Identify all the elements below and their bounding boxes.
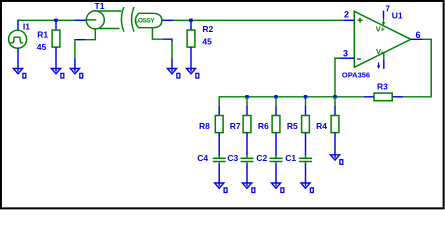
wire xyxy=(171,41,173,59)
wire xyxy=(173,19,343,21)
resistor R4 xyxy=(331,116,339,133)
svg-text:45: 45 xyxy=(37,42,47,52)
svg-text:U1: U1 xyxy=(392,11,403,21)
svg-text:R2: R2 xyxy=(202,24,213,34)
resistor R1 xyxy=(52,30,60,47)
resistor R7 xyxy=(243,116,251,133)
source I1 xyxy=(9,20,27,69)
resistor R3 xyxy=(374,93,392,101)
svg-text:3: 3 xyxy=(343,48,348,58)
svg-text:V+: V+ xyxy=(376,25,386,34)
pin 4 stub xyxy=(383,59,385,69)
wire xyxy=(305,106,307,116)
wire xyxy=(275,97,277,106)
wire xyxy=(74,39,76,59)
resistor R6 xyxy=(272,116,280,133)
lossy transmission line T1 xyxy=(85,7,162,40)
pin 7 stub xyxy=(383,11,385,19)
ladder bus wire xyxy=(219,96,335,98)
wire xyxy=(75,19,87,21)
capacitor C1 xyxy=(299,155,312,164)
wire xyxy=(218,96,220,106)
svg-text:R3: R3 xyxy=(377,81,388,91)
svg-text:LOSSY: LOSSY xyxy=(135,18,156,25)
wire xyxy=(305,133,307,156)
resistor R8 xyxy=(215,116,223,133)
ground xyxy=(51,69,63,79)
capacitor C3 xyxy=(241,155,254,164)
svg-text:7: 7 xyxy=(386,5,391,14)
svg-text:R5: R5 xyxy=(287,121,298,131)
svg-text:T1: T1 xyxy=(95,1,105,11)
wire xyxy=(218,164,220,183)
op-amp U1 xyxy=(354,11,411,67)
wire xyxy=(335,96,364,98)
wire xyxy=(364,96,374,98)
wire xyxy=(190,47,192,69)
svg-text:R6: R6 xyxy=(258,121,269,131)
node dot xyxy=(189,19,192,22)
capacitor C2 xyxy=(270,155,283,164)
wire xyxy=(334,106,336,116)
svg-text:6: 6 xyxy=(416,30,421,40)
wire xyxy=(305,97,307,106)
wire xyxy=(275,164,277,183)
svg-text:C2: C2 xyxy=(256,153,267,163)
wire xyxy=(334,133,336,155)
ground xyxy=(13,69,25,79)
wire pin3 xyxy=(335,57,340,59)
node dot xyxy=(245,95,248,98)
wire xyxy=(392,96,403,98)
node dot xyxy=(304,95,307,98)
wire xyxy=(403,39,431,97)
wire xyxy=(75,39,85,41)
ground xyxy=(186,69,198,79)
wire xyxy=(18,19,75,21)
wire xyxy=(74,59,76,69)
wire xyxy=(343,19,354,21)
svg-text:R8: R8 xyxy=(199,121,210,131)
svg-text:2: 2 xyxy=(344,10,349,20)
wire xyxy=(163,39,172,41)
wire xyxy=(275,133,277,156)
ground xyxy=(215,183,227,193)
node dot xyxy=(333,95,336,98)
svg-text:R7: R7 xyxy=(230,121,241,131)
svg-text:R4: R4 xyxy=(316,121,327,131)
ground xyxy=(242,183,254,193)
wire xyxy=(218,133,220,156)
ground xyxy=(167,69,179,79)
wire xyxy=(246,164,248,183)
svg-text:I1: I1 xyxy=(23,21,30,31)
pin 6 output wire xyxy=(411,38,423,40)
wire xyxy=(334,97,336,106)
wire xyxy=(190,20,192,30)
wire xyxy=(275,106,277,116)
wire xyxy=(55,20,57,30)
capacitor C4 xyxy=(213,155,226,164)
svg-text:C1: C1 xyxy=(285,153,296,163)
ground xyxy=(301,183,313,193)
wire xyxy=(55,47,57,69)
svg-text:OPA356: OPA356 xyxy=(342,70,370,79)
wire pin3 to bus xyxy=(334,57,336,96)
node dot xyxy=(274,95,277,98)
wire xyxy=(340,57,355,59)
svg-text:V-: V- xyxy=(376,47,384,56)
resistor R2 xyxy=(187,30,195,47)
ground xyxy=(70,69,82,79)
svg-text:R1: R1 xyxy=(37,29,48,39)
node dot xyxy=(54,19,57,22)
svg-text:45: 45 xyxy=(202,36,212,46)
svg-text:C4: C4 xyxy=(197,153,208,163)
wire xyxy=(218,106,220,116)
wire xyxy=(305,164,307,183)
wire xyxy=(162,19,174,21)
resistor R5 xyxy=(302,116,310,133)
wire xyxy=(246,133,248,156)
V- arrow xyxy=(378,63,380,66)
ground xyxy=(330,155,342,165)
wire xyxy=(171,59,173,69)
wire xyxy=(246,106,248,116)
svg-text:C3: C3 xyxy=(227,153,238,163)
ground xyxy=(271,183,283,193)
wire xyxy=(246,97,248,106)
